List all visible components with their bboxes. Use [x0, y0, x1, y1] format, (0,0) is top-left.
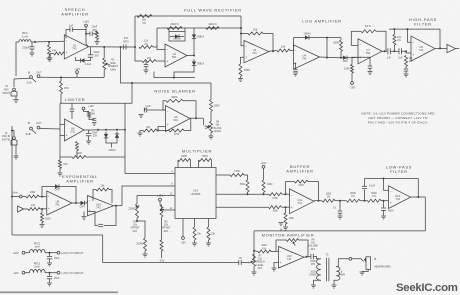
wire U4 feedback right — [313, 37, 341, 39]
jack J2 body — [11, 140, 17, 146]
headphone plug J5 — [364, 257, 371, 270]
label 2700 fb — [298, 184, 304, 187]
label 12k 1% — [144, 40, 149, 46]
label 15k b — [211, 233, 216, 236]
op-amp U12 — [389, 186, 411, 209]
resistor 1M — [143, 129, 157, 132]
pin 12 label — [170, 208, 173, 210]
resistor 100k exp upper — [26, 191, 39, 198]
potentiometer R7 — [253, 254, 256, 267]
label 50uF 25V — [94, 50, 100, 57]
wire diode loop — [106, 140, 117, 143]
wire U7 cap gnd — [369, 68, 371, 71]
label S1B — [25, 132, 30, 136]
pot R1 wiper arrow — [106, 63, 110, 65]
diode 1N4154 in box — [170, 34, 184, 38]
switch S1A lever — [32, 78, 37, 82]
ground U7 cap — [368, 72, 373, 75]
wire 0.1 stub — [339, 201, 341, 211]
ground 5600 lp — [381, 216, 386, 219]
wire diode box — [169, 28, 185, 32]
wire R7 bottom — [253, 267, 255, 272]
label 10 K — [365, 24, 371, 28]
resistor 15k b — [207, 227, 210, 240]
wire U4 plus gnd — [294, 63, 296, 69]
terminal +12V limiter — [82, 107, 85, 110]
ground 1M — [138, 133, 143, 136]
wire monitor top — [254, 230, 425, 232]
label HEADPHONES — [374, 266, 391, 269]
label CR3 — [54, 189, 60, 192]
label +15V TO CIRCUIT — [61, 252, 84, 255]
wire cap to diode — [87, 57, 91, 60]
wire cap2 to U8 — [401, 51, 411, 53]
node U12 out — [417, 196, 419, 198]
label 3300 1% — [326, 193, 332, 199]
label 15k — [147, 57, 152, 60]
diode CR over U4 — [301, 35, 313, 39]
wire 5600 gnd — [383, 210, 385, 215]
capacitor HP gnd — [404, 69, 408, 71]
label R8 VOLUME — [308, 240, 318, 251]
wire 22k to U3 out — [263, 34, 273, 52]
wire U6 cap stub — [71, 103, 73, 108]
resistor 1000 log — [340, 40, 343, 52]
wire rectifier out bus — [240, 16, 242, 34]
wire offset join — [137, 221, 145, 238]
wire 6800 gnd — [240, 77, 242, 79]
wire bias line — [60, 76, 104, 78]
wire U10 fb right — [109, 190, 112, 204]
terminal +15V out — [57, 251, 60, 254]
label RFC1 1mH — [22, 31, 28, 39]
wire lp fb down — [417, 179, 419, 197]
wire 1000 mon — [254, 250, 258, 253]
label speech amplifier title — [61, 7, 88, 17]
wire input line to U1 — [31, 40, 64, 43]
node U8 in — [405, 50, 407, 52]
label 1N914 U4 — [303, 33, 311, 36]
wire J1 sleeve to ground — [15, 96, 17, 99]
wire tap to limiter box — [131, 83, 133, 103]
pin bottom c — [208, 219, 210, 228]
wire 47k stub — [48, 42, 50, 45]
wire 50uF stub — [88, 130, 90, 133]
wire 50uF gnd — [88, 136, 90, 141]
label 2700 NB — [174, 133, 180, 136]
wire lp cap top — [364, 179, 366, 187]
wire 10k to U9 plus — [40, 208, 47, 210]
ground 15k a — [192, 243, 197, 246]
ground U1 plus — [48, 58, 53, 61]
node +12V junction — [85, 33, 87, 35]
wire osc column — [11, 126, 13, 235]
wire 2700 NB right — [158, 130, 169, 132]
capacitor 25uF -15 — [47, 276, 52, 278]
diode AGC — [78, 58, 87, 62]
resistor 100k shunt — [284, 213, 287, 224]
wire stub 220pF — [31, 42, 33, 47]
wire HP R up — [393, 45, 395, 51]
wire U13 fb up — [276, 240, 287, 252]
transformer T1 core — [326, 258, 329, 282]
resistor 2000 exp — [41, 213, 44, 223]
label NB cap — [146, 105, 151, 108]
wire blanker drop — [210, 83, 212, 100]
wire 22000 bottom — [136, 218, 138, 221]
diode 1N914 upper — [192, 32, 196, 41]
label monitor amplifier title — [262, 233, 315, 238]
diode CR4 — [79, 201, 87, 205]
wire 10k to U4 — [290, 50, 294, 52]
capacitor 0.1 buffer — [338, 211, 343, 213]
capacitor limiter bias — [92, 118, 96, 120]
limiter box bottom left — [60, 156, 72, 158]
label 100k U7 — [344, 68, 350, 71]
label 1000 log — [333, 41, 339, 45]
wire lp to U12 — [381, 200, 389, 202]
node U6 out a — [97, 129, 99, 131]
op-amp U6 — [65, 119, 85, 141]
op-amp U4 — [294, 45, 320, 69]
resistor 8200 b — [199, 155, 212, 161]
resistor 10k log — [277, 45, 290, 53]
pin 8 label — [171, 184, 173, 186]
wire 3300a bottom — [247, 192, 249, 194]
wire pot R5 feed — [159, 201, 161, 205]
node monitor in — [253, 250, 255, 252]
capacitor NB input — [144, 108, 146, 113]
resistor 2700 feedback — [295, 180, 309, 183]
node U5 plus — [157, 130, 159, 132]
wire S1A to bias line — [40, 76, 60, 78]
wire 1000 to U13 — [271, 251, 279, 253]
resistor 20000 — [144, 238, 147, 251]
resistor 10k 1% mid — [206, 23, 219, 30]
op-amp U3 — [244, 41, 269, 63]
wire limiter corner down — [59, 157, 61, 160]
wire 12k to U2 — [153, 46, 157, 48]
label R7 monitor — [255, 256, 265, 270]
wire R3 cap — [405, 67, 407, 69]
watermark SeekIC.com — [396, 282, 458, 294]
wire 10K right — [376, 31, 386, 51]
wire 2000 gnd — [41, 223, 43, 225]
ground R4 — [209, 136, 214, 139]
resistor 1000 blanker — [210, 100, 213, 112]
label 8200 b lp — [371, 192, 377, 198]
terminal -15V U7 — [351, 82, 354, 85]
wire J2 gnd — [15, 145, 17, 156]
wire +15 cap stub — [49, 253, 51, 256]
wire RFC2 out — [45, 252, 57, 254]
node rect bottom — [173, 77, 175, 79]
label 2200 — [76, 152, 82, 155]
node bus 33 — [240, 33, 242, 35]
label .05 cap — [238, 257, 242, 260]
wire 15k to U2 plus — [156, 60, 165, 62]
wire cap to T1 — [313, 257, 321, 259]
label 25uF 25V — [310, 260, 316, 266]
wire lp shunt cap stub — [383, 201, 385, 208]
capacitor U4 plus — [293, 69, 297, 71]
resistor 3300 b — [262, 180, 265, 193]
jack J1 tip — [13, 88, 16, 91]
terminal exp input — [19, 195, 22, 198]
wire +18V to RFC2 — [25, 252, 30, 254]
wire -15 cap gnd — [49, 279, 51, 283]
resistor U1 plus input — [54, 52, 64, 55]
switch S1B contact out — [37, 126, 40, 129]
wire 100 to ground — [59, 169, 61, 173]
wire U4 output — [320, 56, 340, 59]
ground U10 plus — [82, 217, 87, 220]
label CR4 — [79, 206, 85, 209]
ground at J1 — [14, 100, 19, 103]
ground U4 plus — [293, 73, 298, 76]
wire +15 cap gnd — [49, 259, 51, 263]
limiter box right — [124, 103, 126, 173]
resistor 12k 1% — [139, 46, 153, 49]
label full wave rectifier title — [184, 8, 242, 13]
node U10 out — [115, 205, 117, 207]
switch S1A contact out — [37, 75, 40, 78]
node lp mid — [364, 200, 366, 202]
wire 10K left — [351, 30, 361, 32]
potentiometer R2 50k — [88, 112, 91, 118]
wire 47k to ground — [48, 56, 50, 58]
wire monitor feed — [103, 262, 239, 264]
label 1N914 upper — [197, 36, 205, 39]
note about power connections — [361, 112, 434, 125]
wire diode box bottom — [169, 32, 185, 42]
wire bus to 22k — [241, 33, 248, 35]
wire 220pF lower — [31, 49, 33, 53]
label 1000 OHMS — [309, 271, 317, 277]
label 50uF 25V limiter — [92, 132, 98, 138]
resistor R5 lower — [160, 240, 163, 251]
wire R5 lower to -15V — [161, 251, 163, 258]
wire R8 to out — [299, 240, 309, 257]
limiter box bottom right — [86, 156, 125, 158]
resistor 5600 — [166, 95, 183, 102]
capacitor 10uF bypass — [90, 32, 92, 36]
label +12V U1 — [83, 20, 90, 24]
wire 100k to U9 — [39, 196, 47, 198]
wire limiter to multiplier — [125, 173, 175, 175]
wire -15 cap stub — [49, 273, 51, 276]
potentiometer R5 10k — [160, 205, 163, 218]
wire CR2 to U7 plus — [351, 56, 358, 59]
op-amp U13 — [279, 247, 305, 269]
wire R5 to pin — [162, 205, 167, 211]
diode CR2 — [339, 56, 351, 60]
wire U10 lower loop — [104, 206, 116, 226]
wire U8 inv up — [408, 29, 412, 42]
node U2 output — [193, 55, 195, 57]
ground U2 plus — [144, 70, 149, 73]
wire into U7 inv — [351, 31, 358, 45]
label RFC3 1mH — [34, 263, 41, 269]
label 1N914 lower — [197, 63, 205, 66]
wire diode lower drop — [174, 68, 194, 78]
capacitor 25uF +15 — [47, 256, 52, 258]
label 15k a — [197, 233, 202, 236]
label exponential amplifier title — [62, 174, 98, 184]
potentiometer R1 500k — [103, 58, 106, 70]
op-amp U5 — [166, 106, 191, 132]
wire 2000 stub — [41, 209, 43, 213]
wire rect bottom box — [154, 72, 195, 78]
resistor 3300 a — [246, 180, 249, 192]
diode CR2 1N914 limiter — [115, 132, 119, 140]
label IN S1A — [28, 71, 31, 75]
wire 100k to -15V — [351, 73, 353, 82]
node U9 inv — [41, 196, 43, 198]
ground 15k b — [206, 243, 211, 246]
label +15V buffer — [261, 162, 267, 165]
wire pin12 wire — [166, 209, 175, 211]
label S1A — [26, 81, 31, 85]
ground T1 secondary — [332, 285, 337, 288]
op-amp U1 — [64, 35, 88, 59]
node tap 132 — [131, 82, 133, 84]
capacitor 50uF output — [88, 55, 93, 57]
resistor 10k exp lower — [28, 204, 40, 211]
wire source to 10k — [24, 208, 28, 210]
terminal +15V multiplier — [159, 198, 162, 201]
pot 22000 wiper — [136, 206, 140, 208]
label 6800 — [244, 68, 250, 72]
ground U13 plus — [272, 268, 277, 271]
wire plug gnd — [362, 270, 368, 272]
label -12V — [74, 67, 81, 71]
capacitor U10 loop — [98, 224, 103, 226]
node buffer plus — [285, 206, 287, 208]
terminal -15V out — [57, 271, 60, 274]
node U1 output junction — [103, 46, 105, 48]
label 100k shunt — [289, 217, 295, 220]
label +18V — [12, 251, 18, 255]
node feedback 327 — [326, 37, 328, 39]
ground +15 filter — [47, 263, 52, 266]
ground under 47k — [47, 58, 52, 61]
wire 0.1 gnd — [339, 213, 341, 215]
label high-pass filter title — [409, 17, 437, 27]
wire U1 feedback top — [66, 29, 70, 31]
label 0.1uF first — [386, 57, 391, 60]
wire rectifier input vertical — [134, 16, 136, 47]
label HP shunt — [397, 36, 402, 42]
pin 4 label — [171, 172, 173, 174]
jack J2 tip — [13, 137, 16, 140]
label R6 OFFSET — [130, 222, 140, 233]
node lp fb — [383, 178, 385, 180]
wire 8200 b left stub — [198, 160, 200, 168]
resistor 3300 1% — [322, 199, 335, 202]
wire 1000 to pot — [210, 112, 212, 122]
wire 1M gnd — [140, 131, 143, 133]
wire limiter 1000 down — [76, 151, 78, 158]
op-amp U8 — [411, 36, 435, 61]
wire mic input line — [16, 42, 19, 76]
pot R8 wiper arrow — [293, 242, 295, 246]
ground 20000 — [143, 254, 148, 257]
op-amp U10 — [88, 196, 114, 216]
node U8 out — [439, 47, 441, 49]
label U1 feedback cap — [69, 24, 74, 28]
wire bleed to ground — [96, 40, 98, 42]
node 1000 bottom — [340, 57, 342, 59]
15k b gnd — [208, 240, 210, 243]
capacitor U6 comp — [70, 109, 75, 111]
wire CR3 loop right — [63, 187, 76, 204]
label 5600 lp — [388, 210, 394, 213]
wire 100k shunt stub — [285, 207, 287, 213]
inductor RFC2 — [30, 250, 46, 253]
wire U13 plus — [274, 263, 279, 268]
pin bottom b — [194, 219, 196, 228]
wire U2 plus cap stub — [145, 61, 147, 64]
node U9 out — [75, 202, 77, 204]
wire U6 inv stub — [60, 124, 65, 126]
wire mult out pin2 — [216, 174, 230, 176]
wire mult to buffer bottom — [216, 206, 269, 208]
wire T1 secondary bottom — [334, 280, 336, 284]
wire 2700 to 3300a — [244, 175, 248, 180]
wire 8200 a right stub — [190, 160, 192, 168]
wire diode loop stub — [111, 143, 113, 148]
label 10uF 25V — [92, 25, 98, 32]
wire mult to buffer top — [216, 193, 269, 195]
label 20k 1% — [142, 19, 147, 25]
capacitor HP 0.1uF second — [399, 48, 401, 54]
label RFC2 1mH — [34, 243, 41, 249]
node U4 out — [326, 57, 328, 59]
wire NB cap to U5 — [147, 109, 166, 111]
resistor 6800 — [239, 64, 242, 77]
capacitor 5600 lp — [381, 208, 386, 210]
label -18V — [12, 271, 18, 275]
jack J5 tip — [349, 257, 352, 260]
node bus 28 — [240, 27, 242, 29]
label low-pass filter title — [386, 165, 412, 175]
wire U4 fb down — [326, 38, 328, 57]
wire U5 out — [190, 117, 204, 119]
wire U1 feedback top right — [73, 30, 89, 47]
ground 0.1 buffer — [338, 216, 343, 219]
node U8 fb — [407, 28, 409, 30]
node U11 out — [318, 200, 320, 202]
resistor 2700 NB — [169, 129, 184, 132]
ground 50uF — [86, 141, 91, 144]
label buffer amplifier title — [286, 164, 313, 174]
wire rect top feedback — [135, 15, 241, 17]
wire +15V down — [263, 168, 265, 180]
wire U9 out — [72, 202, 79, 204]
resistor 8200 1% a — [347, 199, 361, 202]
label IN S1B — [28, 121, 31, 125]
wire 3300b bottom — [263, 193, 265, 195]
wire U5 plus — [158, 127, 166, 131]
wire 22000 top — [136, 196, 138, 204]
resistor U1 bypass bleed — [96, 31, 99, 40]
ground headphone plug — [360, 272, 365, 275]
wire U6 output — [84, 129, 125, 131]
wire NB input stub — [144, 108, 145, 110]
node 3300b — [263, 193, 265, 195]
wire -18V to RFC3 — [25, 272, 30, 274]
